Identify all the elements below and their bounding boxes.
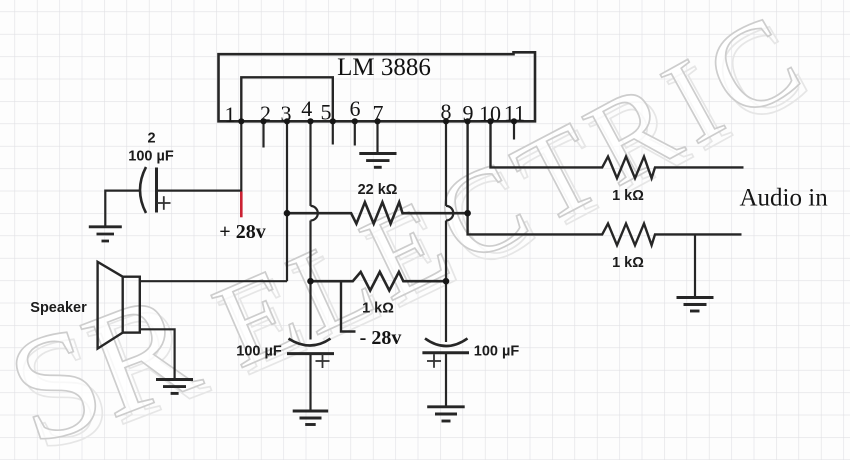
ground G1	[89, 227, 122, 241]
svg-text:100 µF: 100 µF	[236, 344, 282, 360]
capacitor C2 curved plate	[140, 167, 146, 213]
ground G2	[359, 154, 396, 168]
wire pin10 down and right with resistor R3 1 kOhm	[491, 121, 744, 178]
wire C4 to ground	[445, 353, 447, 406]
capacitor C4 curved plate	[425, 338, 468, 346]
wire inner loop pin1 to pin5	[241, 77, 332, 120]
svg-text:LM 3886: LM 3886	[337, 54, 431, 81]
svg-text:22 kΩ: 22 kΩ	[358, 182, 398, 198]
svg-text:- 28v: - 28v	[360, 327, 402, 349]
op-amp IC U1 LM3886 outer box	[219, 52, 536, 121]
svg-text:Audio in: Audio in	[740, 185, 829, 212]
svg-text:4: 4	[301, 96, 312, 121]
node D junction pin8 R2	[443, 278, 450, 285]
node A junction pin3 feedback	[284, 210, 291, 217]
capacitor C4 straight plate	[422, 351, 469, 354]
wire pin7 to ground	[376, 121, 378, 153]
wire pin8 lower to capacitor C4	[445, 221, 447, 343]
svg-text:2: 2	[147, 131, 155, 147]
svg-text:6: 6	[350, 96, 361, 121]
wire speaker top to pin3	[140, 280, 287, 282]
wire pin11 stub	[513, 121, 515, 139]
svg-text:+ 28v: + 28v	[219, 221, 265, 243]
wire pin6 stub	[354, 121, 356, 145]
polarity + for C2	[157, 196, 171, 210]
svg-text:100 µF: 100 µF	[128, 149, 174, 165]
node C junction pin4 speaker wire	[307, 278, 314, 285]
wire pin1 down and left to capacitor C2	[158, 121, 242, 190]
resistor R2 1 kOhm with wire from pin4 node to pin8 node	[311, 272, 447, 291]
wire pin3 down to speaker node	[286, 121, 288, 281]
wire pin4 upper	[309, 121, 311, 206]
capacitor C3 curved plate	[289, 339, 331, 346]
ground G3	[156, 380, 193, 394]
wire pin9 down and right with resistor R4 1 kOhm	[468, 121, 742, 245]
wire C3 to ground	[309, 354, 311, 411]
svg-text:Speaker: Speaker	[30, 300, 87, 316]
polarity + for C4	[427, 354, 441, 368]
wire pin8 upper	[445, 121, 447, 206]
svg-text:100 µF: 100 µF	[474, 344, 520, 360]
wire hop pin8 over feedback wire	[446, 206, 453, 221]
svg-text:1 kΩ: 1 kΩ	[362, 301, 394, 317]
speaker LS1 cone	[98, 262, 123, 349]
wire pin5 stub	[332, 121, 334, 144]
wire pin4 lower to capacitor C3	[309, 221, 311, 340]
ground G4	[293, 411, 329, 425]
node B junction pin9 feedback	[464, 210, 471, 217]
svg-text:1: 1	[225, 102, 236, 127]
wire pin2 stub	[262, 121, 264, 147]
capacitor C3 straight plate	[287, 352, 334, 355]
svg-text:1 kΩ: 1 kΩ	[612, 255, 644, 271]
wire +28v red segment	[240, 192, 243, 218]
polarity + for C3	[316, 354, 330, 368]
ground G5	[427, 407, 465, 421]
junction dots on IC pins	[238, 118, 517, 124]
speaker LS1 driver rectangle	[123, 277, 140, 333]
wire speaker bottom to ground	[140, 329, 175, 379]
capacitor C2 straight plate	[155, 168, 158, 213]
wire hop pin4 over feedback wire	[311, 206, 318, 221]
wire C2 to ground	[105, 191, 141, 226]
ground G6	[677, 298, 714, 312]
wire audio ground stub	[694, 234, 696, 297]
resistor R1 22 kOhm feedback	[287, 202, 468, 224]
wire -28v stub	[341, 281, 356, 331]
svg-text:1 kΩ: 1 kΩ	[612, 188, 644, 204]
